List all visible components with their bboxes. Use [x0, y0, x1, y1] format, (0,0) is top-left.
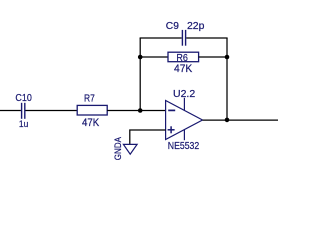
svg-text:47K: 47K: [82, 117, 100, 129]
wire: feedback top left segment: [140, 37, 182, 39]
node: R6 left junction: [138, 55, 143, 60]
svg-text:1u: 1u: [19, 119, 28, 130]
svg-text:C10: C10: [15, 93, 32, 104]
U2 non-inverting input symbol (plus): [168, 126, 175, 133]
R6 designator label: [176, 53, 188, 64]
svg-text:GNDA: GNDA: [113, 136, 124, 160]
wire: non-inverting input to GNDA: [130, 130, 166, 144]
svg-text:U2.2: U2.2: [173, 89, 195, 100]
wire: R7 to inverting-input junction: [107, 110, 140, 112]
wire: R6 row right segment: [199, 56, 227, 58]
R6 value label 47K: [174, 63, 193, 75]
capacitor C9: [182, 30, 185, 46]
GNDA net label: [113, 136, 124, 160]
wire: feedback left vertical: [139, 38, 141, 111]
svg-text:47K: 47K: [174, 63, 193, 75]
C9 value label 22p: [187, 21, 205, 32]
U2 inverting input symbol (minus): [168, 109, 175, 111]
ground GNDA symbol: [123, 144, 137, 154]
svg-text:NE5532: NE5532: [168, 141, 200, 152]
node: R6 right junction: [225, 55, 230, 60]
C9 designator label: [166, 21, 179, 32]
wire: R6 row left segment: [140, 56, 168, 58]
wire: output net: [203, 119, 279, 121]
svg-text:C9: C9: [166, 21, 179, 32]
node: output junction: [225, 118, 230, 123]
capacitor C10: [22, 103, 25, 119]
wire: input net left of C10: [0, 110, 21, 112]
C10 designator label: [15, 93, 32, 104]
U2 part number label NE5532: [168, 141, 200, 152]
wire: feedback right vertical: [226, 38, 228, 120]
U2 designator label U2.2: [173, 89, 195, 100]
svg-text:R7: R7: [84, 94, 95, 105]
resistor R6: [168, 52, 199, 62]
R7 value label 47K: [82, 117, 100, 129]
R7 designator label: [84, 94, 95, 105]
wire: C10 to R7: [26, 110, 78, 112]
wire: feedback top right segment: [186, 37, 227, 39]
U2 negative supply pin tick: [183, 130, 185, 141]
wire: junction to U2 inverting input: [140, 110, 165, 112]
resistor R7: [77, 105, 107, 115]
U2 positive supply pin tick: [183, 98, 185, 111]
op-amp U2.2: [166, 101, 203, 140]
node: inverting input junction: [138, 108, 143, 113]
svg-text:22p: 22p: [187, 21, 205, 32]
C10 value label 1u: [19, 119, 28, 130]
